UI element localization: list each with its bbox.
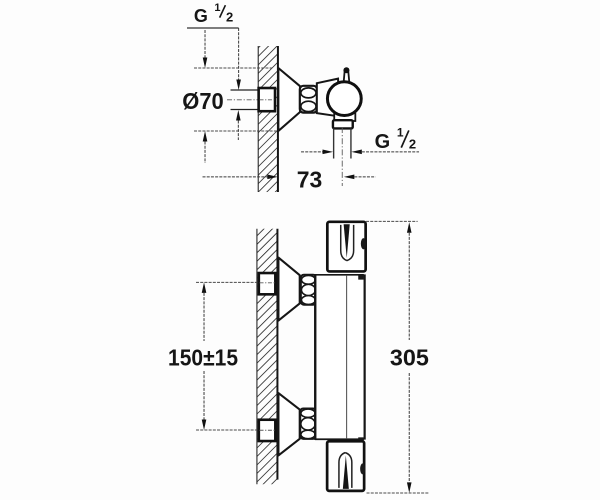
- svg-text:150±15: 150±15: [168, 344, 238, 370]
- outlet flange nut: [333, 120, 353, 128]
- temperature stem on top of knob: [343, 67, 349, 82]
- dimension 73 (wall to outlet center): [203, 175, 376, 180]
- svg-text:Ø70: Ø70: [182, 88, 224, 114]
- dia 70 upper arrow: [203, 30, 208, 68]
- svg-text:2: 2: [409, 137, 416, 152]
- valve body (top view): [317, 79, 340, 117]
- supply pipe stub in wall: [227, 90, 263, 110]
- bottom handle: [327, 441, 365, 491]
- shower outlet pipe: [334, 127, 351, 186]
- extension line bottom (escutcheon bottom edge): [194, 130, 278, 132]
- escutcheon cone (top view): [278, 68, 300, 131]
- svg-text:G: G: [375, 131, 391, 153]
- upper union nut with rings: [301, 275, 316, 305]
- upper escutcheon cone: [278, 258, 299, 321]
- label G 1/2 (top-left): [187, 2, 239, 28]
- lower square wall nut: [259, 420, 276, 441]
- G1/2 lower arrow (pipe bottom edge): [236, 110, 241, 140]
- leader from G1/2 down to pipe top edge: [236, 28, 241, 90]
- thermostat knob (circle, top view): [327, 82, 361, 116]
- union nut with rings (top view): [300, 86, 317, 113]
- extension line lower union center: [196, 429, 259, 431]
- dimension 150±15: [202, 282, 207, 430]
- dia 70 lower arrow: [203, 131, 208, 163]
- wall (hatched section, top view): [258, 46, 278, 192]
- wall (hatched section, bottom view): [257, 229, 278, 485]
- outlet neck under knob: [334, 110, 355, 121]
- upper square wall nut: [259, 273, 276, 294]
- extension line upper union center: [196, 281, 259, 283]
- lower union nut with rings: [300, 408, 316, 438]
- G1/2 outlet arrows: [301, 150, 419, 155]
- svg-text:73: 73: [297, 167, 323, 193]
- svg-text:G: G: [194, 6, 208, 26]
- label G 1/2 (outlet): [375, 125, 416, 153]
- top handle: [327, 222, 366, 272]
- svg-text:1: 1: [214, 2, 220, 14]
- dimension 305: [366, 221, 429, 493]
- svg-text:2: 2: [226, 10, 233, 25]
- lower escutcheon cone: [278, 393, 299, 455]
- mixer body bar: [315, 274, 365, 443]
- square wall union nut: [259, 88, 275, 111]
- svg-text:305: 305: [390, 344, 429, 370]
- extension line top (escutcheon top edge): [194, 67, 272, 69]
- svg-text:1: 1: [397, 125, 404, 139]
